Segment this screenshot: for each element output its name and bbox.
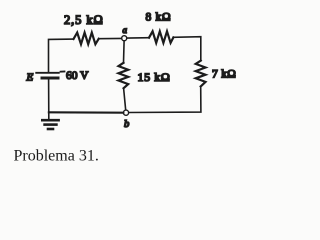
svg-text:15 kΩ: 15 kΩ	[138, 70, 171, 84]
svg-text:7 kΩ: 7 kΩ	[212, 69, 236, 81]
svg-text:a: a	[123, 25, 128, 35]
svg-text:2,5 kΩ: 2,5 kΩ	[64, 13, 104, 27]
svg-text:E: E	[26, 72, 34, 84]
svg-text:60 V: 60 V	[66, 70, 89, 82]
resistor R4 7 kOhm zigzag (vertical)	[196, 61, 206, 87]
wire from R4 to bottom-right corner to node b	[129, 86, 201, 112]
wire from R2 to top-right corner down to R4	[173, 37, 200, 61]
resistor R2 8 kOhm zigzag	[149, 31, 173, 43]
ground bar 3	[48, 128, 53, 131]
node b circle	[123, 110, 128, 115]
wire from R3 to node b	[124, 88, 126, 110]
wire bottom rail left (thick)	[49, 111, 123, 114]
svg-text:8 kΩ: 8 kΩ	[146, 12, 172, 24]
battery E bottom plate (short thick)	[42, 77, 58, 80]
battery E top plate (long)	[36, 72, 59, 74]
resistor R3 15 kOhm zigzag (vertical)	[119, 63, 129, 88]
wire from R1 to node a	[99, 37, 122, 39]
svg-text:b: b	[124, 119, 129, 130]
ground bar 1	[42, 119, 58, 122]
wire top-left corner and left vertical upper	[49, 39, 74, 71]
wire from node a down to R3	[123, 41, 126, 63]
battery E top plate right dash	[61, 71, 65, 73]
wire left vertical lower from battery to ground stem	[48, 80, 50, 119]
ground bar 2	[45, 123, 57, 126]
node a circle	[122, 36, 127, 41]
wire from node a to R2	[127, 37, 149, 39]
resistor R1 2,5 kOhm zigzag	[74, 33, 99, 45]
svg-text:Problema 31.: Problema 31.	[14, 148, 99, 165]
